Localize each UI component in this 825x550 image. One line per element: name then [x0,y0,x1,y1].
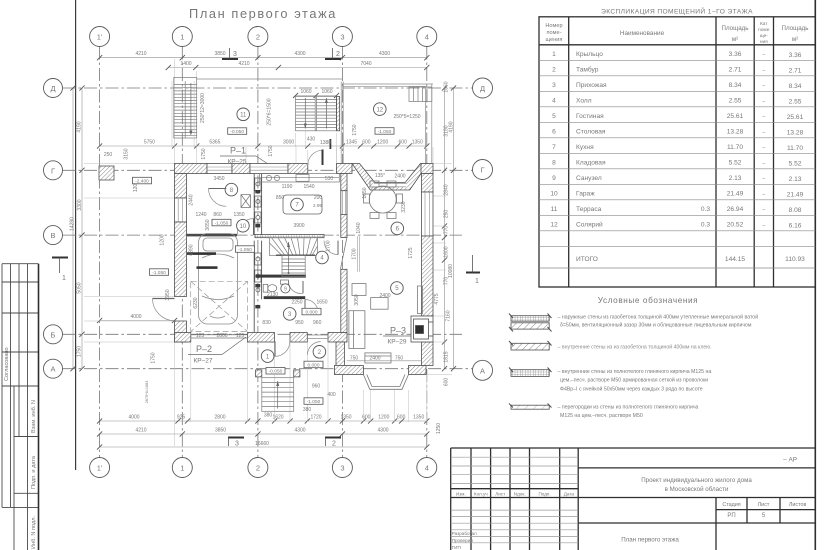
tambour window in Б wall [307,334,328,336]
svg-text:850: 850 [276,195,285,201]
svg-text:–: – [762,68,765,74]
section marks [52,59,480,438]
svg-text:Проект индивидуального жилого: Проект индивидуального жилого дома [641,477,752,484]
svg-text:План первого этажа: План первого этажа [621,537,679,544]
hall right wall [336,174,347,370]
svg-text:2: 2 [552,67,556,74]
svg-text:1060: 1060 [321,89,332,95]
helper lines terrace [172,81,336,164]
svg-text:2400: 2400 [379,293,390,299]
left stamp strip [2,264,39,550]
solarium 12 top edge double [342,83,433,85]
svg-text:1400: 1400 [180,61,191,67]
axis grid dash-dot lines [63,47,473,458]
svg-text:3850: 3850 [215,428,226,434]
svg-text:1250: 1250 [436,423,442,434]
svg-text:925: 925 [177,415,186,421]
svg-text:-0.050: -0.050 [230,129,244,135]
partition room8/garage [187,234,238,237]
bottom bay window [363,375,408,390]
header texts [545,21,808,45]
dimension lines [73,58,454,447]
svg-text:2875*6=1683: 2875*6=1683 [145,381,149,404]
svg-text:2: 2 [256,464,260,473]
svg-text:1: 1 [180,33,184,42]
svg-text:План первого этажа: План первого этажа [189,6,337,21]
svg-text:-1.050: -1.050 [238,247,252,253]
svg-text:10080: 10080 [448,264,454,278]
living furniture [349,284,423,364]
svg-text:1: 1 [180,464,184,473]
solarium steps top right [409,87,432,102]
garage floor dashed marking [191,281,248,331]
svg-text:380: 380 [264,413,273,419]
legend symbol partition [509,404,552,410]
window in Г wall room8 [207,164,232,174]
X-box shaft room 8 [241,195,251,208]
svg-text:25.61: 25.61 [787,114,804,121]
svg-text:10: 10 [240,224,247,230]
svg-text:5.52: 5.52 [789,161,802,168]
svg-text:250*12=3000: 250*12=3000 [200,93,206,123]
svg-text:Солярий: Солярий [576,221,603,229]
svg-text:1200: 1200 [378,415,389,421]
svg-text:2.13: 2.13 [789,176,802,183]
svg-text:8: 8 [552,160,556,167]
svg-text:1: 1 [552,51,556,58]
svg-text:4300: 4300 [379,51,390,57]
svg-text:250*5=1250: 250*5=1250 [393,114,420,120]
svg-text:3300: 3300 [77,199,83,210]
svg-text:960: 960 [313,320,322,326]
svg-text:1750: 1750 [201,148,207,159]
svg-text:ЭКСПЛИКАЦИЯ ПОМЕЩЕНИЙ 1−ГО: ЭКСПЛИКАЦИЯ ПОМЕЩЕНИЙ 1−ГО ЭТАЖА [601,7,753,16]
right outer wall axis4 [422,174,434,366]
svg-text:430: 430 [307,137,316,143]
svg-text:Nдок.: Nдок. [514,492,526,497]
svg-text:9: 9 [552,175,556,182]
svg-text:400: 400 [327,392,336,398]
sheet frame right border [814,0,816,550]
svg-text:1350: 1350 [412,140,423,146]
svg-text:Изм.: Изм. [456,492,466,497]
svg-text:Кат: Кат [760,21,768,27]
svg-text:2.71: 2.71 [729,67,742,74]
svg-text:4775: 4775 [434,293,440,304]
svg-text:КР–29: КР–29 [388,339,407,346]
svg-text:4190: 4190 [449,121,455,132]
svg-text:Холл: Холл [576,98,592,105]
axis circles [44,27,493,478]
svg-text:Столовая: Столовая [576,129,606,136]
terrace 11 top edge [197,78,342,80]
svg-text:4210: 4210 [135,428,146,434]
terrace U-stair [296,97,337,131]
svg-text:6890: 6890 [189,244,195,255]
svg-text:2: 2 [256,33,260,42]
dim ticks [70,55,456,450]
svg-text:2.13: 2.13 [729,175,742,182]
svg-text:10: 10 [550,191,558,198]
svg-text:1540: 1540 [303,184,314,190]
svg-text:1350: 1350 [413,415,424,421]
svg-text:2400: 2400 [369,356,380,362]
svg-text:КР–27: КР–27 [194,358,213,365]
svg-text:Инб. N подл.: Инб. N подл. [31,515,37,549]
svg-text:380: 380 [303,407,312,413]
room number circles [225,103,404,363]
svg-text:600: 600 [397,415,406,421]
svg-text:1: 1 [62,275,66,282]
rows [550,51,805,263]
svg-text:Б: Б [51,330,56,339]
svg-text:860: 860 [213,212,222,218]
svg-text:1815: 1815 [444,351,450,362]
svg-text:7160: 7160 [446,310,452,321]
svg-text:1350: 1350 [233,212,244,218]
svg-text:2400: 2400 [394,174,405,180]
svg-text:Д: Д [480,84,485,93]
svg-text:поме-: поме- [547,30,562,36]
svg-text:3: 3 [233,51,237,58]
svg-text:1380: 1380 [320,140,331,146]
svg-text:–: – [762,145,765,151]
svg-text:770: 770 [444,277,450,286]
svg-text:-1.050: -1.050 [378,129,392,135]
svg-text:4190: 4190 [77,121,83,132]
svg-text:6: 6 [552,129,556,136]
svg-text:Площадь: Площадь [782,25,809,32]
svg-text:12: 12 [376,107,383,113]
svg-text:1040: 1040 [356,222,362,233]
terrace door in Г wall: black leaf + arc [308,150,323,165]
svg-text:12: 12 [550,222,558,229]
svg-text:135°: 135° [375,173,385,179]
svg-text:Прихожая: Прихожая [576,82,607,89]
svg-text:Подп. и дата: Подп. и дата [31,455,37,489]
svg-text:1060: 1060 [300,89,311,95]
porch canopy edge [357,236,359,271]
svg-text:8.34: 8.34 [729,82,742,89]
Г wall right corner [421,164,433,174]
svg-text:5: 5 [552,113,556,120]
svg-text:9: 9 [284,287,287,293]
svg-text:3: 3 [340,33,344,42]
svg-text:11.70: 11.70 [787,145,803,152]
svg-text:4: 4 [425,464,429,473]
svg-text:ИТОГО: ИТОГО [576,256,598,263]
svg-text:1': 1' [97,33,103,42]
kitchen-hall door [324,241,338,255]
main stair [270,238,318,277]
svg-text:1620: 1620 [272,415,283,421]
svg-text:0.000: 0.000 [307,362,319,368]
solarium right edge double [425,86,427,163]
svg-text:3000: 3000 [283,140,294,146]
svg-text:1750: 1750 [151,352,157,363]
svg-text:4300: 4300 [377,428,388,434]
svg-text:1: 1 [475,278,479,285]
svg-text:1350: 1350 [340,415,351,421]
svg-text:950: 950 [295,320,304,326]
porch steps [262,378,294,412]
bay window band (dining) [352,164,428,191]
svg-text:Р–2: Р–2 [196,344,212,354]
svg-text:Лист: Лист [495,492,506,497]
garage side door arc [153,299,175,321]
dining table [364,181,403,219]
svg-text:–: – [762,176,765,182]
svg-text:Г: Г [480,166,484,175]
fireplace P-3 [411,316,433,342]
svg-text:1190: 1190 [282,184,293,190]
svg-text:5050: 5050 [77,282,83,293]
terrace door piers [336,164,352,174]
legend symbol brick wall [509,368,552,377]
svg-text:– внутренние стены из из газоб: – внутренние стены из из газобетона толщ… [558,344,712,351]
svg-text:–: – [762,192,765,198]
svg-text:2.55: 2.55 [729,98,742,105]
svg-text:-1.050: -1.050 [152,270,166,276]
svg-text:Листов: Листов [789,502,807,508]
dim texts [128,51,424,447]
svg-text:3900: 3900 [293,223,304,229]
svg-text:1750: 1750 [352,124,358,135]
svg-text:ще-: ще- [760,34,769,39]
svg-text:11: 11 [240,113,247,119]
table grid [539,17,815,287]
svg-text:А: А [50,365,55,374]
svg-text:– наружные стены из газобетона: – наружные стены из газобетона толщиной … [558,314,759,321]
porch side piers [256,370,262,377]
svg-text:750: 750 [350,356,359,362]
legend symbol outer wall (double bar) [509,314,552,332]
svg-text:4: 4 [425,33,429,42]
bay window slots [374,184,406,187]
terrace stair top-left [174,78,197,139]
svg-text:– внутренние стены из полнотел: – внутренние стены из полнотелого глинян… [558,369,712,375]
A wall (living bottom) [334,366,426,375]
svg-text:2.71: 2.71 [789,68,802,75]
svg-text:250: 250 [104,152,113,158]
svg-text:Р–3: Р–3 [390,326,406,336]
svg-text:2: 2 [332,441,336,448]
svg-text:200: 200 [314,195,323,201]
svg-text:1725: 1725 [408,247,414,258]
svg-text:-1.050: -1.050 [215,221,229,227]
svg-text:Наименование: Наименование [620,30,665,37]
svg-text:13.28: 13.28 [787,130,804,137]
axis2 plumbing wall [254,174,261,333]
svg-text:1750: 1750 [268,145,274,156]
svg-text:Взам. инб. N: Взам. инб. N [31,400,37,433]
svg-text:-1.050: -1.050 [307,399,321,405]
kitchen window in Г wall [250,164,288,174]
svg-text:М125 на цем.–песч. растворе М5: М125 на цем.–песч. растворе М50 [560,413,643,419]
svg-text:0.000: 0.000 [305,310,317,316]
svg-text:РП: РП [727,513,735,519]
svg-text:6230: 6230 [193,297,199,308]
svg-text:3230: 3230 [401,201,407,212]
svg-text:– перегородки из стены из полн: – перегородки из стены из полнотелого гл… [558,405,699,411]
svg-text:-0.050: -0.050 [269,369,283,375]
terrace/solarium divider axis3 [340,82,342,164]
svg-text:125: 125 [236,333,245,339]
svg-text:2840: 2840 [444,184,450,195]
svg-text:4300: 4300 [294,428,305,434]
svg-text:0.3: 0.3 [701,222,710,229]
svg-text:13.28: 13.28 [727,129,744,136]
svg-text:м²: м² [732,36,738,43]
svg-text:530: 530 [325,176,334,182]
svg-text:600: 600 [399,140,408,146]
svg-text:δ=50мм, вентиляционный зазор 3: δ=50мм, вентиляционный зазор 30мм и обли… [560,322,752,329]
svg-text:3: 3 [340,464,344,473]
svg-text:2440: 2440 [189,194,195,205]
svg-text:600: 600 [444,378,450,387]
kitchen room box [283,195,322,214]
svg-text:3.36: 3.36 [789,52,802,59]
svg-text:Д: Д [50,84,55,93]
svg-text:Согласовано: Согласовано [4,347,10,381]
room8 door arc [237,219,253,235]
svg-text:–: – [762,223,765,229]
svg-text:в Московской области: в Московской области [665,486,729,493]
svg-text:2800: 2800 [214,415,225,421]
svg-text:5365: 5365 [209,140,220,146]
left outer wall [175,174,187,343]
small dim texts [104,114,421,419]
elevation boxes [150,128,395,405]
svg-text:2: 2 [336,51,340,58]
living room door leaf [341,237,347,268]
svg-text:6.16: 6.16 [789,223,802,230]
P-labels [188,146,411,365]
svg-text:3650: 3650 [205,219,211,230]
sheet frame left border [75,0,77,470]
svg-text:14290: 14290 [70,217,76,231]
svg-text:8.08: 8.08 [789,207,802,214]
chimney left of building [99,166,114,180]
svg-text:Условные обозначения: Условные обозначения [598,296,698,305]
svg-text:1650: 1650 [316,300,327,306]
svg-text:8.34: 8.34 [789,83,802,90]
svg-text:250: 250 [444,210,450,219]
svg-text:1060: 1060 [444,81,450,92]
svg-text:2.99: 2.99 [313,203,322,208]
svg-text:цем.–песч. растворе М50 армиро: цем.–песч. растворе М50 армированная сет… [560,377,708,384]
svg-text:Стадия: Стадия [722,502,740,508]
svg-text:1345: 1345 [346,140,357,146]
svg-text:Р–1: Р–1 [230,146,246,156]
svg-text:В: В [50,231,55,240]
svg-text:Санузел: Санузел [576,175,602,182]
svg-text:11: 11 [551,206,558,213]
svg-text:3.36: 3.36 [729,51,742,58]
svg-text:ГИП: ГИП [452,545,461,550]
svg-text:Терраса: Терраса [576,206,602,213]
В wall kitchen bottom [255,235,324,238]
legend symbol inner gas-concrete wall [509,341,552,350]
svg-text:ния: ния [760,40,768,45]
svg-text:1700: 1700 [326,240,332,251]
svg-text:26.94: 26.94 [727,206,744,213]
svg-text:2800: 2800 [216,333,227,339]
svg-text:3150: 3150 [124,148,130,159]
svg-text:110.93: 110.93 [785,256,805,263]
svg-text:21.49: 21.49 [727,191,744,198]
svg-text:21.49: 21.49 [787,192,804,199]
svg-text:4000: 4000 [128,415,139,421]
svg-text:3950: 3950 [165,289,171,300]
kitchen counter [260,174,340,183]
wall Г: left segment [175,164,434,191]
svg-text:Тамбур: Тамбур [576,66,599,74]
svg-text:Проверил: Проверил [452,538,473,543]
svg-text:4210: 4210 [238,61,249,67]
svg-text:1750: 1750 [77,346,83,357]
svg-text:1720: 1720 [310,415,321,421]
svg-text:4210: 4210 [135,51,146,57]
svg-text:–: – [762,130,765,136]
svg-text:16660: 16660 [255,441,269,447]
svg-text:1': 1' [97,464,103,473]
svg-text:3: 3 [235,441,239,448]
svg-text:Гостиная: Гостиная [576,113,604,120]
svg-text:120: 120 [133,184,139,193]
svg-text:–: – [762,52,765,58]
svg-text:3050: 3050 [354,294,360,305]
svg-text:7: 7 [552,144,556,151]
svg-text:5750: 5750 [144,140,155,146]
svg-text:770: 770 [444,226,450,235]
svg-text:Дата: Дата [564,492,575,497]
svg-text:–: – [762,99,765,105]
room 9 small circle [281,284,290,293]
svg-text:4000: 4000 [130,314,141,320]
svg-text:750: 750 [395,356,404,362]
svg-text:Номер: Номер [545,23,562,29]
svg-text:Кухня: Кухня [576,144,594,151]
svg-text:Разработал: Разработал [452,531,477,536]
svg-text:Кладовая: Кладовая [576,160,606,167]
svg-text:1200: 1200 [377,140,388,146]
svg-text:–: – [762,83,765,89]
-2.400 box [133,177,152,184]
svg-text:щения: щения [546,37,563,43]
svg-text:1200: 1200 [160,234,166,245]
svg-text:– АР: – АР [783,457,797,464]
svg-text:2250: 2250 [291,300,302,306]
svg-text:1650: 1650 [362,187,368,198]
svg-text:Кол.уч: Кол.уч [474,492,488,497]
stair partitions black [256,275,306,278]
svg-text:3: 3 [552,82,556,89]
svg-text:Лист: Лист [758,502,770,508]
svg-text:0.3: 0.3 [701,206,710,213]
svg-text:–: – [762,207,765,213]
stamp strip rotated labels [4,347,37,549]
entry door arc [274,342,276,357]
tambour inner door arc [308,342,321,355]
svg-text:7040: 7040 [360,61,371,67]
svg-text:поме: поме [758,28,770,33]
wall Б (bottom) [175,333,348,343]
svg-text:Ф4Вр–I с ячейкой 50х50мм через: Ф4Вр–I с ячейкой 50х50мм через каждых 3 … [560,385,703,392]
washbasin WC [281,280,289,284]
hall to room3 door arc [305,300,318,313]
garage car [199,234,238,325]
